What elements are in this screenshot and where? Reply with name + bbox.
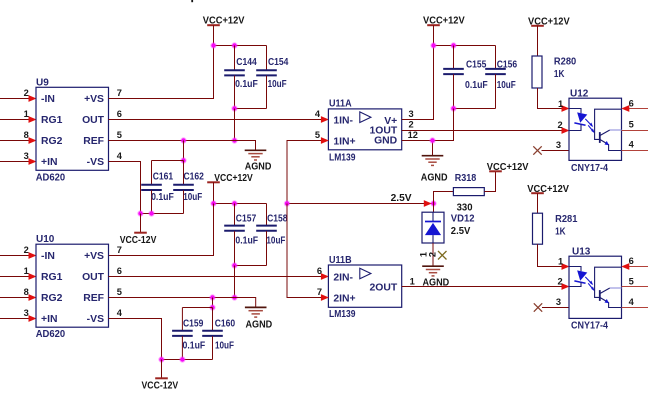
- pin numbers U11A left: [315, 109, 321, 140]
- node VCC junction: [210, 42, 216, 48]
- svg-text:1: 1: [24, 266, 29, 276]
- node R318/VD12 junction: [430, 200, 436, 206]
- svg-text:1K: 1K: [554, 69, 565, 80]
- wire U9 REF / AGND row: [109, 141, 256, 151]
- svg-text:U11B: U11B: [329, 255, 352, 266]
- svg-text:4: 4: [315, 109, 321, 119]
- ground AGND (under U11A): [422, 156, 444, 166]
- op-amp U10 AD620 body: [36, 244, 109, 327]
- svg-text:C155: C155: [466, 60, 487, 71]
- capacitor C155: [443, 46, 464, 109]
- node GND junction: [429, 137, 435, 143]
- svg-text:2: 2: [428, 252, 438, 257]
- svg-text:VCC+12V: VCC+12V: [203, 16, 245, 27]
- comparator U11A body: [328, 109, 401, 150]
- node C157 bottom junction: [231, 262, 237, 268]
- node REF row riser junction: [209, 294, 215, 300]
- svg-text:C158: C158: [267, 214, 288, 225]
- power VCC+12V (above C155): [427, 25, 440, 45]
- svg-text:7: 7: [117, 245, 122, 255]
- pin numbers U9 left: [24, 88, 29, 161]
- svg-text:10uF: 10uF: [268, 79, 287, 90]
- wire U10 pin8 RG2 stub: [0, 294, 37, 301]
- svg-text:12: 12: [408, 130, 418, 140]
- svg-text:R281: R281: [555, 214, 578, 225]
- svg-text:4: 4: [629, 297, 635, 307]
- svg-text:VCC-12V: VCC-12V: [142, 381, 179, 392]
- svg-text:RG2: RG2: [41, 293, 63, 304]
- svg-text:C154: C154: [268, 57, 289, 68]
- svg-text:1IN+: 1IN+: [333, 136, 355, 147]
- node 2.5V rail x=287: [284, 200, 290, 206]
- svg-text:C156: C156: [497, 60, 518, 71]
- power VCC+12V (R280): [531, 26, 544, 56]
- node C157 top junction: [231, 200, 237, 206]
- wire U9 +VS pin7 up to VCC node: [109, 46, 214, 99]
- pin numbers U13 left: [556, 256, 563, 307]
- node C144 bottom junction: [231, 105, 237, 111]
- capacitor C159: [172, 308, 193, 360]
- svg-text:4: 4: [117, 151, 123, 161]
- wire U11A 1OUT pin2 to U12 pin2: [402, 127, 570, 134]
- svg-text:10uF: 10uF: [497, 80, 516, 91]
- svg-text:AGND: AGND: [245, 162, 272, 173]
- wire 2IN+ pin7 feed from 2.5V net: [287, 204, 329, 301]
- svg-text:U13: U13: [572, 246, 591, 257]
- svg-text:3: 3: [556, 140, 561, 150]
- svg-text:2IN+: 2IN+: [333, 293, 355, 304]
- svg-text:10uF: 10uF: [183, 192, 202, 203]
- wire U10 pin2 -IN stub: [0, 252, 37, 259]
- power VCC+12V (R281): [531, 193, 544, 213]
- diode VD12 2.5V zener: [422, 204, 444, 266]
- no-ERC mark VD12 pin2: [438, 251, 447, 260]
- pin numbers U13 right: [629, 256, 635, 307]
- node V+/VCC junction: [430, 42, 436, 48]
- svg-text:+VS: +VS: [84, 94, 104, 105]
- svg-text:LM139: LM139: [329, 309, 356, 320]
- svg-text:3: 3: [409, 109, 414, 119]
- svg-text:6: 6: [629, 99, 634, 109]
- svg-text:-IN: -IN: [41, 251, 55, 262]
- wire C161/C162 bottom rail: [141, 213, 184, 215]
- svg-text:5: 5: [315, 130, 320, 140]
- svg-text:VCC+12V: VCC+12V: [214, 173, 253, 184]
- svg-text:REF: REF: [83, 136, 104, 147]
- resistor R318 330 ohm: [434, 171, 496, 203]
- svg-text:2.5V: 2.5V: [451, 226, 471, 237]
- svg-text:-IN: -IN: [41, 94, 55, 105]
- wire U12 pin5 stub: [622, 130, 648, 132]
- node top rail junction: [180, 157, 186, 163]
- svg-text:VCC+12V: VCC+12V: [487, 162, 529, 173]
- svg-text:1K: 1K: [555, 227, 566, 238]
- capacitor C160: [202, 308, 223, 360]
- ground AGND (lower row): [245, 307, 267, 317]
- wire U13 pin6 stub: [621, 263, 648, 270]
- power VCC-12V (bottom): [155, 360, 168, 379]
- svg-text:0.1uF: 0.1uF: [151, 192, 174, 203]
- svg-text:0.1uF: 0.1uF: [183, 341, 206, 352]
- wire U11B 2OUT pin1 to U13 pin2: [402, 283, 570, 290]
- wire +12V mid rail: [214, 203, 267, 205]
- svg-text:0.1uF: 0.1uF: [235, 236, 258, 247]
- wire U10 -VS pin4 down to VCC-12V rail: [109, 319, 162, 360]
- svg-text:3: 3: [556, 297, 561, 307]
- svg-text:2: 2: [24, 245, 29, 255]
- wire C159/C160 bottom rail: [162, 359, 213, 361]
- svg-text:3: 3: [24, 308, 29, 318]
- svg-text:C162: C162: [184, 172, 205, 183]
- svg-text:LM139: LM139: [329, 153, 356, 164]
- svg-text:U11A: U11A: [329, 99, 352, 110]
- svg-text:8: 8: [24, 130, 29, 140]
- svg-text:VD12: VD12: [451, 214, 475, 225]
- wire U10 REF / lower AGND row: [109, 298, 256, 308]
- node C144 top junction: [231, 42, 237, 48]
- svg-text:2OUT: 2OUT: [369, 283, 397, 294]
- pin numbers U11B left: [317, 266, 322, 297]
- node C159/C160 top rail junction: [209, 304, 215, 310]
- wire U13 pin4 stub: [622, 307, 648, 309]
- node mid rail x=213.5: [210, 200, 216, 206]
- svg-text:6: 6: [117, 109, 122, 119]
- svg-text:C144: C144: [236, 57, 257, 68]
- wire drop to lower AGND row: [234, 266, 236, 298]
- ground AGND (VD12): [422, 266, 444, 276]
- svg-text:AGND: AGND: [423, 278, 450, 289]
- resistor R281 1K: [533, 213, 563, 266]
- pin numbers U12 left: [556, 99, 563, 150]
- svg-text:1: 1: [410, 276, 415, 286]
- node -VS/VCC-12V bottom junction: [158, 356, 164, 362]
- wire 1IN+ pin5 feed from 2.5V net: [287, 137, 329, 203]
- svg-text:U9: U9: [36, 77, 49, 88]
- arrow into U13 pin1: [562, 263, 570, 270]
- wire C161/C162 top rail: [152, 160, 184, 162]
- svg-text:RG1: RG1: [41, 115, 63, 126]
- node AGND row x=234.5: [231, 137, 237, 143]
- svg-text:10uF: 10uF: [266, 236, 285, 247]
- wire U12 pin4 stub: [622, 150, 648, 152]
- wire U9 OUT row to U11A 1IN-: [109, 116, 329, 123]
- svg-text:1: 1: [558, 99, 563, 109]
- wire U9 -VS pin4 down to VCC-12V rail: [109, 162, 141, 214]
- svg-text:0.1uF: 0.1uF: [465, 80, 488, 91]
- wire U13 pin5 stub: [622, 286, 648, 288]
- wire C155/C156 top rail: [434, 45, 496, 47]
- node C159 bottom junction: [179, 356, 185, 362]
- wire U10 pin3 +IN stub: [0, 315, 37, 322]
- wire C159/C160 top rail: [182, 307, 212, 309]
- wire U9 pin2 -IN stub: [0, 95, 37, 102]
- svg-text:VCC+12V: VCC+12V: [527, 184, 569, 195]
- wire U12 pin6 stub: [621, 105, 648, 112]
- capacitor C154: [256, 46, 277, 109]
- pin numbers U11A right: [408, 109, 418, 140]
- wire U10 pin1 RG1 stub: [0, 273, 37, 280]
- node C155 bottom junction: [450, 105, 456, 111]
- svg-text:CNY17-4: CNY17-4: [571, 321, 608, 332]
- svg-text:RG2: RG2: [41, 136, 63, 147]
- svg-text:VCC-12V: VCC-12V: [120, 235, 157, 246]
- svg-text:CNY17-4: CNY17-4: [571, 163, 608, 174]
- node C155 top junction: [450, 42, 456, 48]
- wire U11A GND pin12 to AGND: [402, 141, 433, 156]
- wire riser to C159/C160 top rail: [212, 298, 214, 308]
- no-connect mark U13 pin3: [534, 303, 542, 311]
- svg-text:2: 2: [558, 120, 563, 130]
- pin numbers U9 right: [117, 88, 123, 161]
- svg-text:+VS: +VS: [84, 251, 104, 262]
- ground AGND (top): [245, 150, 267, 160]
- svg-text:VCC+12V: VCC+12V: [528, 16, 570, 27]
- svg-text:U10: U10: [36, 234, 55, 245]
- svg-text:-VS: -VS: [87, 314, 104, 325]
- wire U10 OUT row to U11B 2IN-: [109, 273, 329, 280]
- node REF row x=183.5: [180, 137, 186, 143]
- node -VS/VCC-12V junction: [137, 210, 143, 216]
- pin numbers U10 left: [24, 245, 29, 318]
- svg-text:2IN-: 2IN-: [333, 272, 353, 283]
- svg-text:C160: C160: [215, 319, 236, 330]
- node lower AGND row x=234.5: [231, 294, 237, 300]
- wire U9 pin3 +IN stub: [0, 158, 37, 165]
- svg-text:2: 2: [24, 88, 29, 98]
- svg-text:4: 4: [117, 308, 123, 318]
- svg-text:AD620: AD620: [36, 172, 66, 183]
- power VCC+12V (mid, U10 +VS): [207, 182, 220, 203]
- svg-text:RG1: RG1: [41, 272, 63, 283]
- svg-text:5: 5: [117, 287, 122, 297]
- svg-text:R318: R318: [455, 173, 477, 184]
- svg-text:REF: REF: [83, 293, 104, 304]
- svg-text:0.1uF: 0.1uF: [235, 79, 258, 90]
- svg-text:8: 8: [24, 287, 29, 297]
- power VCC+12V (R318): [489, 170, 502, 172]
- power VCC+12V (top left): [207, 25, 220, 45]
- pin numbers U10 right: [117, 245, 123, 318]
- svg-text:C159: C159: [183, 319, 204, 330]
- svg-text:GND: GND: [374, 136, 398, 147]
- svg-text:5: 5: [117, 130, 122, 140]
- svg-text:10uF: 10uF: [215, 341, 234, 352]
- svg-text:5: 5: [629, 119, 634, 129]
- wire drop to AGND row: [234, 109, 236, 141]
- capacitor C158: [256, 204, 277, 266]
- svg-text:3: 3: [24, 151, 29, 161]
- svg-text:AGND: AGND: [421, 172, 448, 183]
- op-amp U9 AD620 body: [36, 87, 109, 170]
- svg-text:330: 330: [457, 203, 473, 214]
- wire U11A V+ pin3 to VCC node: [402, 46, 434, 120]
- svg-text:7: 7: [117, 88, 122, 98]
- svg-text:R280: R280: [554, 57, 577, 68]
- svg-text:+IN: +IN: [41, 314, 57, 325]
- wire REF drop to C161/C162 top rail: [183, 141, 185, 161]
- svg-text:VCC+12V: VCC+12V: [423, 16, 465, 27]
- svg-text:OUT: OUT: [82, 272, 105, 283]
- wire C157/C158 bottom rail: [235, 265, 267, 267]
- capacitor C162: [173, 161, 194, 214]
- svg-text:6: 6: [117, 266, 122, 276]
- wire top rail to C144/C154: [214, 45, 267, 47]
- wire U9 pin1 RG1 stub: [0, 116, 37, 123]
- wire C155/C156 bottom rail: [454, 108, 496, 110]
- svg-text:U12: U12: [570, 89, 589, 100]
- wire C144/C154 bottom rail: [235, 108, 267, 110]
- capacitor C157: [224, 204, 245, 266]
- wire U12 pin3 stub: [542, 150, 570, 152]
- svg-text:1IN-: 1IN-: [333, 115, 353, 126]
- arrow into R318/VD12 node: [424, 200, 432, 207]
- capacitor C161: [141, 161, 162, 214]
- svg-text:6: 6: [629, 256, 634, 266]
- svg-text:5: 5: [629, 276, 634, 286]
- svg-text:1: 1: [24, 109, 29, 119]
- svg-text:C161: C161: [153, 172, 174, 183]
- stray artifact dot (top edge): [191, 0, 193, 2]
- svg-text:-VS: -VS: [87, 157, 104, 168]
- svg-text:4: 4: [629, 139, 635, 149]
- capacitor C144: [224, 46, 245, 109]
- svg-text:2.5V: 2.5V: [391, 193, 412, 204]
- svg-text:+IN: +IN: [41, 157, 57, 168]
- wire U9 pin8 RG2 stub: [0, 137, 37, 144]
- svg-text:AD620: AD620: [36, 329, 66, 340]
- wire U10 +VS riser: [109, 204, 214, 256]
- power VCC-12V (upper): [134, 214, 147, 233]
- wire U13 pin3 stub: [542, 307, 569, 309]
- capacitor C156: [485, 46, 506, 109]
- svg-text:C157: C157: [236, 214, 257, 225]
- pin numbers U12 right: [629, 99, 635, 150]
- svg-text:AGND: AGND: [246, 319, 273, 330]
- no-connect mark U12 pin3: [533, 146, 541, 154]
- svg-text:6: 6: [317, 266, 322, 276]
- arrow into U12 pin1: [562, 105, 570, 112]
- comparator U11B body: [328, 265, 401, 307]
- wire rail drop to U11A GND wire: [433, 109, 454, 141]
- optocoupler U12 CNY17-4 body: [569, 98, 622, 160]
- wire 2.5V rail: [287, 203, 434, 205]
- svg-text:2: 2: [409, 119, 414, 129]
- node C161 bottom junction: [148, 210, 154, 216]
- svg-text:2: 2: [558, 276, 563, 286]
- resistor R280 1K: [532, 56, 563, 109]
- svg-text:1: 1: [558, 256, 563, 266]
- svg-text:OUT: OUT: [82, 115, 105, 126]
- optocoupler U13 CNY17-4 body: [569, 256, 622, 318]
